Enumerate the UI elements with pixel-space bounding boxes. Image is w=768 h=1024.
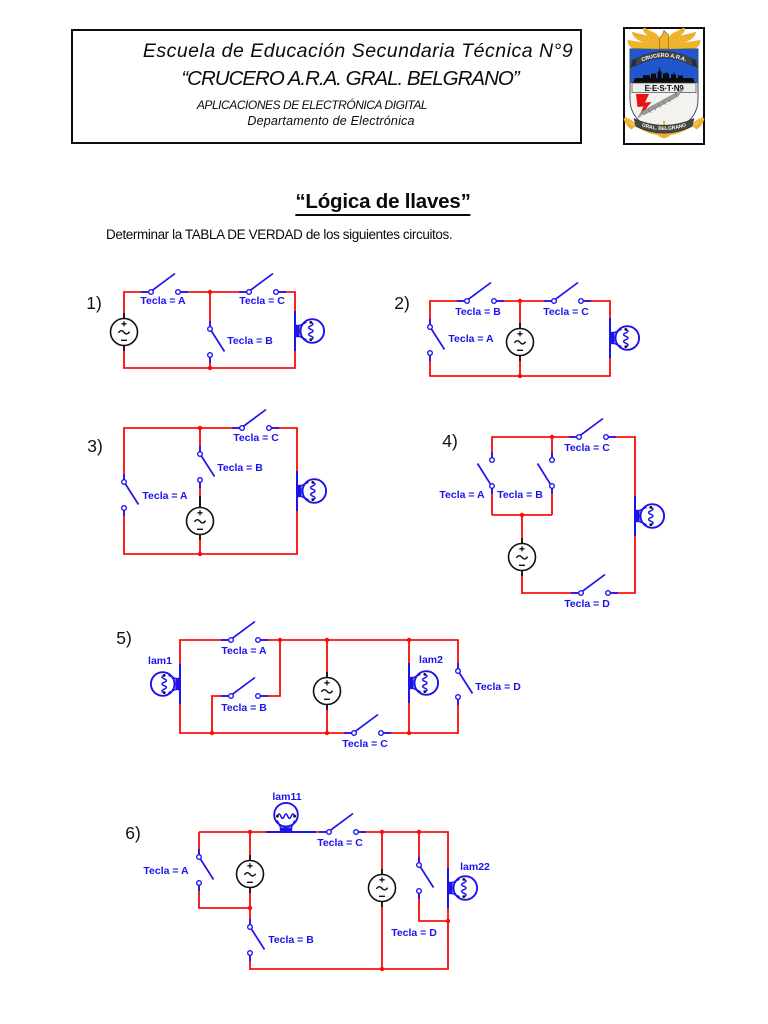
svg-text:Tecla = C: Tecla = C	[317, 837, 363, 849]
svg-text:6): 6)	[125, 823, 141, 843]
svg-text:Tecla = A: Tecla = A	[221, 645, 267, 657]
svg-text:Tecla = B: Tecla = B	[227, 335, 273, 347]
svg-text:Tecla = C: Tecla = C	[233, 432, 279, 444]
svg-text:2): 2)	[394, 293, 410, 313]
svg-text:lam1: lam1	[148, 655, 172, 667]
svg-text:Tecla = A: Tecla = A	[143, 865, 189, 877]
svg-text:3): 3)	[87, 436, 103, 456]
svg-text:Tecla = B: Tecla = B	[221, 702, 267, 714]
svg-text:Tecla = D: Tecla = D	[391, 927, 437, 939]
svg-text:Tecla = A: Tecla = A	[439, 489, 485, 501]
svg-text:lam2: lam2	[419, 654, 443, 666]
svg-text:Tecla = B: Tecla = B	[455, 306, 501, 318]
svg-text:Tecla = B: Tecla = B	[268, 934, 314, 946]
svg-text:4): 4)	[442, 431, 458, 451]
svg-text:Tecla = D: Tecla = D	[564, 598, 610, 610]
svg-text:Tecla = C: Tecla = C	[342, 738, 388, 750]
svg-text:5): 5)	[116, 628, 132, 648]
svg-text:Tecla = A: Tecla = A	[140, 295, 186, 307]
svg-text:lam22: lam22	[460, 861, 490, 873]
svg-text:Tecla = C: Tecla = C	[564, 442, 610, 454]
svg-text:lam11: lam11	[272, 791, 301, 803]
svg-text:Tecla = C: Tecla = C	[239, 295, 285, 307]
svg-text:Tecla = C: Tecla = C	[543, 306, 589, 318]
svg-text:Tecla = B: Tecla = B	[217, 462, 263, 474]
svg-text:Tecla = A: Tecla = A	[142, 490, 188, 502]
svg-text:1): 1)	[86, 293, 102, 313]
svg-text:Tecla = A: Tecla = A	[448, 333, 494, 345]
svg-text:Tecla = B: Tecla = B	[497, 489, 543, 501]
svg-text:Tecla = D: Tecla = D	[475, 681, 521, 693]
